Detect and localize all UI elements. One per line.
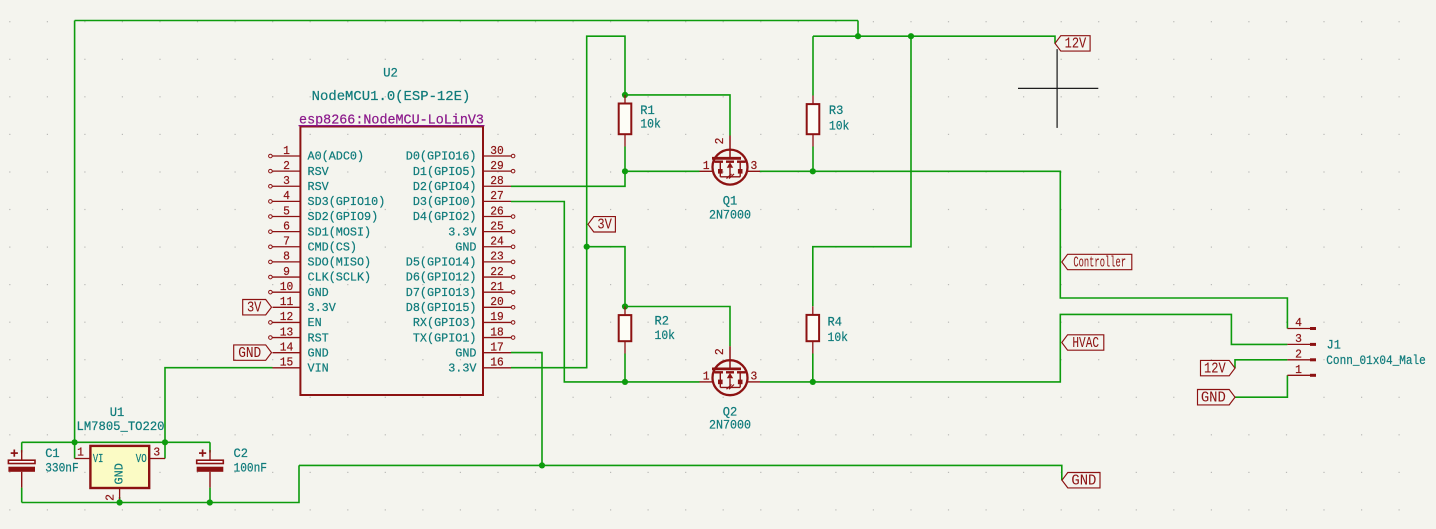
svg-text:U2: U2 [383,65,398,80]
svg-text:Q1: Q1 [723,194,738,208]
svg-text:10k: 10k [828,331,849,345]
svg-text:28: 28 [490,174,504,188]
svg-text:U1: U1 [110,406,125,420]
svg-text:3: 3 [153,445,160,459]
junction J1 [855,33,861,39]
svg-text:SDO(MISO): SDO(MISO) [308,256,372,270]
junction J14 [207,499,213,505]
svg-text:3: 3 [751,159,758,173]
svg-text:D1(GPIO5): D1(GPIO5) [413,165,477,179]
U2 pin 11 3.3V [273,306,301,308]
U2 pin 4 SD3(GPIO10) [273,200,301,202]
svg-text:SD1(MOSI): SD1(MOSI) [308,225,372,239]
wire C2 top lead [209,442,211,452]
svg-text:SD3(GPIO10): SD3(GPIO10) [308,195,386,209]
wire R4 bottom [812,354,814,382]
svg-text:2: 2 [103,494,117,501]
svg-text:3V: 3V [597,217,612,234]
svg-text:7: 7 [283,235,290,249]
svg-text:18: 18 [490,325,504,339]
svg-text:R1: R1 [640,104,655,118]
svg-text:LM7805_TO220: LM7805_TO220 [77,420,165,434]
U2 pin 1 A0(ADC0) [273,155,301,157]
U2 pin 3 RSV [273,185,301,187]
svg-text:2N7000: 2N7000 [709,419,751,433]
svg-text:D4(GPIO2): D4(GPIO2) [413,210,477,224]
wire pin27 to Q2 source row [511,202,700,382]
global label 12V top [1055,36,1090,51]
svg-text:VO: VO [136,452,147,466]
svg-text:1: 1 [703,370,710,384]
U2 pin 8 SDO(MISO) [273,261,301,263]
transistor Q1 2N7000 [729,136,731,159]
junction J8 [622,379,628,385]
svg-text:2: 2 [1295,347,1302,361]
global label GND at U2 pin14 [234,345,272,360]
U2 pin 24 GND [483,246,511,248]
wire pin17 GND drop [511,353,542,466]
svg-text:Controller: Controller [1073,254,1126,271]
wire mid GND rail to GND label [299,465,1062,480]
U2 pin 7 CMD(CS) [273,246,301,248]
svg-text:17: 17 [490,340,504,354]
resistor R2 10k [624,307,626,316]
svg-text:16: 16 [490,356,504,370]
svg-text:3V: 3V [247,300,262,317]
junction J3 [622,92,628,98]
U2 pin 10 GND [273,291,301,293]
U2 pin 19 RX(GPIO3) [483,321,511,323]
svg-text:Q2: Q2 [723,405,738,419]
U2 pin 5 SD2(GPIO9) [273,216,301,218]
global label Controller [1062,254,1132,269]
junction J5 [810,168,816,174]
U2 pin 9 CLK(SCLK) [273,276,301,278]
svg-text:GND: GND [1201,390,1226,407]
svg-text:27: 27 [490,189,504,203]
svg-text:VIN: VIN [308,362,329,376]
svg-text:26: 26 [490,204,504,218]
svg-text:RSV: RSV [308,180,330,194]
svg-text:D8(GPIO15): D8(GPIO15) [406,301,477,315]
svg-text:1: 1 [1295,363,1302,377]
svg-text:5: 5 [283,204,290,218]
svg-text:GND: GND [1071,473,1096,490]
wire 858 drop [857,21,859,37]
wire 3V net pin16 to R1 top and Q1 gate [511,36,730,368]
svg-text:4: 4 [283,189,290,203]
svg-text:24: 24 [490,235,504,249]
svg-text:3.3V: 3.3V [448,225,477,239]
svg-text:330nF: 330nF [45,462,78,476]
wire R1 bottom [624,147,626,172]
svg-text:RST: RST [308,331,329,345]
U2 pin 22 D6(GPIO12) [483,276,511,278]
U2 pin 30 D0(GPIO16) [483,155,511,157]
svg-text:CLK(SCLK): CLK(SCLK) [308,271,372,285]
svg-text:6: 6 [283,219,290,233]
resistor R4 10k [812,306,814,315]
U2 pin 20 D8(GPIO15) [483,306,511,308]
svg-text:3: 3 [751,370,758,384]
wire R2 top to Q2 gate [625,307,730,347]
svg-text:10k: 10k [655,329,676,343]
U2 pin 12 EN [273,321,301,323]
svg-text:11: 11 [280,295,294,309]
svg-text:2N7000: 2N7000 [709,209,751,223]
svg-text:3: 3 [1295,332,1302,346]
junction J9 [810,379,816,385]
svg-text:12: 12 [280,310,294,324]
svg-text:HVAC: HVAC [1072,335,1099,352]
wire U1 pin1 drop [74,442,76,458]
global label GND bottom [1062,473,1100,488]
connector J1 pins [1287,328,1310,330]
svg-text:D5(GPIO14): D5(GPIO14) [406,256,477,270]
junction J12 [539,462,545,468]
svg-text:1: 1 [283,144,290,158]
svg-text:GND: GND [113,463,127,484]
svg-text:20: 20 [490,295,504,309]
U2 pin 2 RSV [273,170,301,172]
junction J7 [622,303,628,309]
U2 pin 18 TX(GPIO1) [483,337,511,339]
svg-text:J1: J1 [1327,338,1341,352]
svg-text:4: 4 [1295,316,1302,330]
U2 pin 14 GND [273,352,301,354]
svg-text:VI: VI [93,452,104,466]
U2 pin 16 3.3V [483,367,511,369]
svg-text:GND: GND [308,346,329,360]
wire U1 pin2 drop [119,497,121,503]
wire 12V rail [813,36,1055,43]
junction J11 [162,439,168,445]
U2 pin 26 D4(GPIO2) [483,216,511,218]
svg-text:C1: C1 [45,447,60,461]
U2 symbol body [300,127,483,396]
svg-text:RX(GPIO3): RX(GPIO3) [413,316,477,330]
svg-text:EN: EN [308,316,322,330]
svg-text:D6(GPIO12): D6(GPIO12) [406,271,477,285]
U2 pin 6 SD1(MOSI) [273,231,301,233]
svg-text:GND: GND [455,240,476,254]
svg-text:25: 25 [490,219,504,233]
svg-text:14: 14 [280,340,294,354]
global label 3V mid [588,217,615,232]
wire pin28 to Q1 source node [511,171,625,186]
transistor Q2 2N7000 [729,346,731,369]
svg-text:29: 29 [490,159,504,173]
svg-text:2: 2 [713,138,727,145]
svg-text:GND: GND [455,346,476,360]
wire left drop to U1 input [74,21,76,443]
svg-text:30: 30 [490,144,504,158]
svg-text:A0(ADC0): A0(ADC0) [308,150,365,164]
voltage regulator U1 LM7805_TO220 [90,446,149,488]
svg-text:R4: R4 [828,315,843,329]
wire GND label to J1 pin1 [1235,375,1287,397]
global label HVAC [1062,335,1104,350]
svg-text:13: 13 [280,325,294,339]
svg-text:GND: GND [308,286,329,300]
svg-text:SD2(GPIO9): SD2(GPIO9) [308,210,379,224]
svg-text:8: 8 [283,250,290,264]
U2 pin 23 D5(GPIO14) [483,261,511,263]
svg-text:NodeMCU1.0(ESP-12E): NodeMCU1.0(ESP-12E) [312,89,471,105]
global label 3V at U2 pin11 [243,300,272,315]
resistor R1 10k [624,95,626,104]
U2 pin 27 D3(GPIO0) [483,200,511,202]
svg-text:GND: GND [238,345,261,362]
svg-text:10k: 10k [640,118,661,132]
svg-text:10: 10 [280,280,294,294]
svg-text:RSV: RSV [308,165,330,179]
U2 pin 13 RST [273,337,301,339]
wire R3 top feed [812,36,814,95]
U2 pin 25 3.3V [483,231,511,233]
svg-text:D3(GPIO0): D3(GPIO0) [413,195,477,209]
wire R2 bottom [624,354,626,382]
wire bottom GND rail [22,465,299,502]
svg-text:3: 3 [283,174,290,188]
svg-text:TX(GPIO1): TX(GPIO1) [413,331,477,345]
wire top 12V rail feed [75,20,858,22]
U2 pin 15 VIN [273,367,301,369]
capacitor C1 330nF [21,450,23,460]
U2 pin 29 D1(GPIO5) [483,170,511,172]
svg-text:R3: R3 [829,104,844,118]
U2 pin 28 D2(GPIO4) [483,185,511,187]
svg-text:1: 1 [77,445,84,459]
wire VIN to U1 output [165,368,273,459]
svg-text:23: 23 [490,250,504,264]
svg-text:2: 2 [283,159,290,173]
wire R4 feed from 12V [813,36,911,306]
svg-text:D7(GPIO13): D7(GPIO13) [406,286,477,300]
svg-text:15: 15 [280,356,294,370]
junction J6 [584,244,590,250]
svg-text:C2: C2 [234,447,249,461]
wire 3V branch to R2 top [587,247,625,307]
U2 pin 17 GND [483,352,511,354]
svg-text:21: 21 [490,280,504,294]
junction J2 [908,33,914,39]
svg-text:3.3V: 3.3V [448,362,477,376]
svg-text:Conn_01x04_Male: Conn_01x04_Male [1326,354,1426,368]
svg-text:100nF: 100nF [234,462,268,476]
global label GND right [1198,390,1236,405]
svg-text:10k: 10k [829,119,850,133]
U2 pin 21 D7(GPIO13) [483,291,511,293]
junction J10 [72,439,78,445]
resistor R3 10k [812,96,814,105]
svg-text:R2: R2 [655,314,670,328]
svg-text:3.3V: 3.3V [308,301,337,315]
svg-text:2: 2 [713,348,727,355]
global label 12V right [1201,360,1236,375]
svg-text:12V: 12V [1065,36,1087,53]
wire Q1 row left [625,170,700,172]
wire R3 bottom [812,147,814,172]
svg-text:D2(GPIO4): D2(GPIO4) [413,180,477,194]
svg-text:1: 1 [703,159,710,173]
wire Q1 drain to Controller to J1 pin4 [760,171,1288,328]
svg-text:D0(GPIO16): D0(GPIO16) [406,150,477,164]
wire C1 C2 top rail [22,441,210,443]
svg-text:CMD(CS): CMD(CS) [308,240,357,254]
svg-text:22: 22 [490,265,504,279]
cursor crosshair [1018,87,1098,89]
wire C1 bottom lead [21,488,23,503]
svg-text:9: 9 [283,265,290,279]
junction J4 [622,168,628,174]
junction J13 [117,499,123,505]
capacitor C2 100nF [209,450,211,460]
wire C1 top lead [21,442,23,452]
wire C2 bottom lead [209,488,211,503]
wire 12V label to J1 pin2 [1235,360,1287,368]
wire Q2 drain to HVAC to J1 pin3 [760,314,1287,382]
svg-text:12V: 12V [1204,360,1226,377]
svg-text:19: 19 [490,310,504,324]
